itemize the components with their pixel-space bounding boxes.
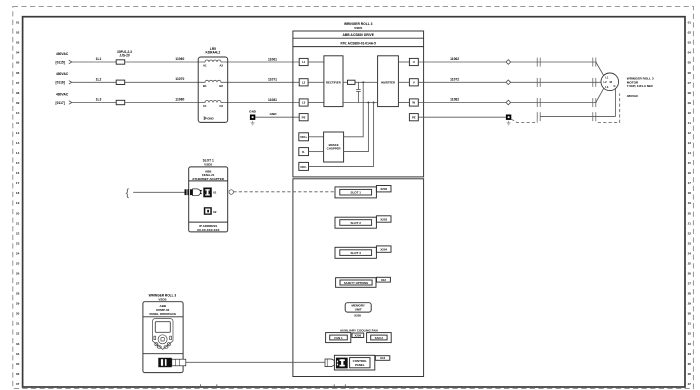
svg-text:UDC+: UDC+: [300, 135, 308, 139]
motor M WRINGER ROLL 3: [601, 73, 619, 91]
svg-text:GND: GND: [207, 116, 213, 120]
svg-text:22: 22: [688, 231, 692, 235]
svg-text:C1: C1: [203, 104, 207, 108]
memory unit: [345, 303, 371, 312]
svg-text:480VAC: 480VAC: [56, 52, 69, 56]
inverter block: [378, 56, 399, 107]
control panel connector box: [334, 355, 374, 370]
wire motor lead U diagonal: [596, 62, 604, 75]
connector plug at panel interface: [158, 358, 186, 367]
motor ground tie point (black square): [506, 115, 511, 126]
svg-text:09: 09: [16, 101, 20, 105]
svg-text:36: 36: [688, 372, 692, 376]
svg-text:11080: 11080: [175, 97, 184, 101]
terminal R-: [299, 148, 309, 156]
svg-text:B2: B2: [219, 84, 223, 88]
svg-text:11061: 11061: [268, 57, 277, 61]
port X203: [376, 216, 391, 222]
adapter IP address field: [189, 222, 228, 232]
wire R- to chopper: [309, 151, 324, 153]
shield bond dashed from square to cable: [511, 119, 537, 122]
node DC- junction 1: [367, 102, 369, 104]
svg-text:16: 16: [16, 171, 20, 175]
svg-text:G: G: [613, 84, 615, 88]
svg-text:UDC-: UDC-: [300, 165, 307, 169]
wire UDC- to DC-: [309, 103, 374, 167]
motor nameplate text: [627, 76, 654, 98]
svg-text:24: 24: [16, 251, 20, 255]
svg-text:ABB ACS880 DRIVE: ABB ACS880 DRIVE: [343, 33, 375, 37]
port X1: [203, 188, 217, 198]
svg-text:11081: 11081: [268, 98, 277, 102]
svg-text:08: 08: [16, 91, 20, 95]
svg-text:01: 01: [16, 21, 20, 25]
svg-text:X203: X203: [380, 217, 387, 221]
svg-text:VSD5: VSD5: [158, 298, 166, 302]
svg-text:02: 02: [16, 31, 20, 35]
svg-text:25: 25: [688, 262, 692, 266]
svg-text:16: 16: [688, 171, 692, 175]
svg-text:33: 33: [688, 342, 692, 346]
svg-text:PE: PE: [412, 115, 416, 119]
wire dashed adapter to drive SLOT 1: [233, 191, 335, 193]
svg-text:UNIT: UNIT: [355, 308, 362, 312]
svg-text:XX.XX.XXX.XXX: XX.XX.XXX.XXX: [197, 228, 220, 232]
svg-text:FAN 2: FAN 2: [375, 336, 384, 340]
svg-text:12: 12: [688, 131, 692, 135]
wire motor lead V: [596, 81, 601, 83]
wire 11070 fuse to line reactor: [125, 77, 199, 82]
fuse 30FU 1L1: [116, 60, 125, 64]
svg-text:VSD5: VSD5: [354, 26, 362, 30]
fan FAN 1: [326, 333, 351, 343]
svg-text:34: 34: [688, 352, 692, 356]
svg-text:C2: C2: [219, 104, 223, 108]
svg-text:FAN 1: FAN 1: [334, 336, 343, 340]
wire chopper to DC-: [344, 103, 369, 152]
wire 1L3 from source to fuse: [72, 98, 116, 103]
svg-text:20: 20: [688, 211, 692, 215]
wire 11071 reactor to drive terminal L2: [228, 78, 300, 83]
svg-text:X208: X208: [355, 334, 362, 338]
wire panel interface to drive X13: [186, 361, 325, 363]
svg-text:05: 05: [688, 61, 692, 65]
svg-text:VSD5: VSD5: [204, 163, 212, 167]
svg-text:11070: 11070: [175, 77, 184, 81]
svg-text:W: W: [412, 101, 415, 105]
wire GND to drive PE terminal: [253, 112, 300, 117]
svg-text:1L3: 1L3: [96, 98, 102, 102]
fuse 30FU 1L2: [116, 80, 125, 84]
drive output terminal W: [409, 99, 418, 106]
svg-text:X202: X202: [380, 187, 387, 191]
svg-text:32: 32: [688, 332, 692, 336]
cable marker ticks pair 1: [537, 58, 540, 122]
svg-text:21: 21: [688, 221, 692, 225]
svg-text:1L2: 1L2: [96, 77, 102, 81]
svg-text:27: 27: [688, 282, 692, 286]
wire motor lead W diagonal: [596, 89, 604, 103]
drive header ABB ACS880 DRIVE: [293, 33, 424, 38]
panel interface divider: [143, 353, 183, 355]
wire terminal L3 to rectifier: [308, 102, 324, 104]
svg-text:AUXILIARY COOLING FAN: AUXILIARY COOLING FAN: [340, 329, 378, 333]
svg-text:35: 35: [16, 362, 20, 366]
wire 11060 fuse to line reactor: [125, 57, 199, 62]
rectifier block: [324, 56, 343, 107]
svg-text:30: 30: [16, 312, 20, 316]
svg-text:03: 03: [688, 41, 692, 45]
svg-text:7.5HP, 11FLA NEC: 7.5HP, 11FLA NEC: [627, 84, 654, 88]
svg-text:1L1: 1L1: [96, 57, 102, 61]
option SLOT 1: [335, 187, 376, 198]
svg-text:V: V: [413, 81, 415, 85]
svg-text:04: 04: [688, 51, 692, 55]
wire chopper to DC+: [344, 82, 364, 137]
wire 11061 reactor to drive terminal L1: [228, 57, 300, 62]
svg-text:L1: L1: [302, 60, 306, 64]
svg-text:PE: PE: [302, 115, 306, 119]
cable marker ticks pair 2: [593, 58, 596, 122]
svg-text:09: 09: [688, 101, 692, 105]
svg-text:37: 37: [16, 382, 20, 386]
reactor winding B1-B2: [198, 80, 228, 88]
svg-text:28: 28: [688, 292, 692, 296]
node circle out of adapter: [229, 190, 233, 194]
svg-text:07: 07: [688, 81, 692, 85]
svg-text:U: U: [413, 60, 415, 64]
port X2: [204, 207, 217, 215]
wire 11080 fuse to line reactor: [125, 97, 199, 102]
wire 11082 to motor: [418, 98, 596, 103]
svg-text:A1: A1: [203, 64, 207, 68]
drive output terminal PE: [409, 114, 418, 121]
node DC- junction 2: [373, 102, 375, 104]
svg-text:X12: X12: [381, 278, 387, 282]
svg-text:JJS-20: JJS-20: [119, 54, 130, 58]
svg-text:A2: A2: [219, 64, 223, 68]
svg-text:33: 33: [16, 342, 20, 346]
svg-text:GND: GND: [270, 112, 278, 116]
svg-text:11082: 11082: [450, 98, 459, 102]
svg-text:{: {: [126, 187, 130, 199]
wire inverter to terminal V: [398, 81, 409, 83]
node [0116] 480VAC source arrow: [56, 72, 72, 85]
wire terminal L2 to rectifier: [308, 81, 324, 83]
svg-text:06: 06: [688, 71, 692, 75]
svg-text:05: 05: [16, 61, 20, 65]
svg-text:10: 10: [16, 111, 20, 115]
svg-text:10: 10: [688, 111, 692, 115]
fuse 30FU 1L3: [116, 100, 125, 104]
option SAFETY OPTIONS: [336, 278, 376, 288]
svg-text:21: 21: [16, 221, 20, 225]
wire 1L2 from source to fuse: [72, 77, 116, 82]
shield dashed at motor end: [598, 94, 620, 123]
ethernet adapter FENA-21 titles: [203, 159, 214, 167]
svg-text:06: 06: [16, 71, 20, 75]
drive input terminal L2: [299, 79, 308, 86]
svg-text:31: 31: [688, 322, 692, 326]
svg-text:15: 15: [16, 161, 20, 165]
drive header P/N: [293, 41, 424, 46]
svg-text:27: 27: [16, 282, 20, 286]
svg-text:01: 01: [688, 21, 692, 25]
svg-text:26: 26: [16, 272, 20, 276]
wire UDC+ to chopper: [309, 136, 324, 138]
ethernet adapter header: [189, 169, 228, 181]
svg-text:11060: 11060: [175, 57, 184, 61]
wire terminal L1 to rectifier: [308, 61, 324, 63]
svg-text:L3: L3: [302, 101, 306, 105]
svg-text:03: 03: [16, 41, 20, 45]
DC bus capacitor: [356, 82, 361, 102]
fuse designator 30FU1,2,3 JJS-20: [117, 50, 132, 58]
svg-text:SLOT 2: SLOT 2: [350, 221, 361, 225]
svg-text:RECTIFIER: RECTIFIER: [326, 80, 341, 84]
brake chopper block: [324, 132, 344, 162]
svg-text:22: 22: [16, 231, 20, 235]
drive output terminal U: [409, 58, 418, 65]
svg-text:X205: X205: [354, 314, 361, 318]
terminal UDC+: [299, 133, 309, 141]
svg-text:480VAC: 480VAC: [56, 72, 69, 76]
svg-text:28: 28: [16, 292, 20, 296]
fan FAN 2: [367, 333, 392, 343]
drive input terminal L1: [299, 58, 308, 65]
svg-text:[0115]: [0115]: [56, 60, 65, 64]
left margin row numbers 01-37: [16, 21, 20, 386]
svg-text:GND: GND: [249, 110, 257, 114]
svg-text:35: 35: [688, 362, 692, 366]
port X13: [375, 356, 389, 361]
svg-text:14: 14: [16, 151, 20, 155]
option SLOT 3: [335, 247, 376, 258]
svg-text:26: 26: [688, 272, 692, 276]
wire PE conductor in cable: [540, 116, 615, 118]
reactor winding A1-A2: [198, 60, 228, 68]
wire DC- rail: [343, 102, 378, 104]
svg-text:PANEL: PANEL: [355, 363, 365, 367]
drive PE terminal: [299, 114, 308, 121]
svg-text:B1: B1: [203, 84, 207, 88]
wire motor ground lead: [614, 89, 616, 117]
svg-text:11062: 11062: [450, 57, 459, 61]
svg-text:15: 15: [688, 161, 692, 165]
svg-text:X1: X1: [213, 190, 217, 194]
svg-text:30: 30: [688, 312, 692, 316]
svg-text:32: 32: [16, 332, 20, 336]
wire 11072 to motor: [418, 77, 596, 82]
svg-text:19: 19: [688, 201, 692, 205]
control panel device icon: [152, 319, 173, 350]
reactor GND marker: [204, 116, 213, 120]
svg-text:37: 37: [688, 382, 692, 386]
svg-text:36: 36: [16, 372, 20, 376]
splice point on V wire: [506, 80, 511, 85]
svg-text:25: 25: [16, 262, 20, 266]
svg-text:29: 29: [16, 302, 20, 306]
right margin row numbers 01-37: [688, 21, 692, 386]
splice point on U wire: [506, 60, 511, 65]
option SLOT 2: [335, 217, 376, 228]
svg-text:X2: X2: [213, 210, 217, 214]
ethernet adapter outline: [189, 167, 228, 232]
panel interface header: [143, 304, 183, 317]
svg-text:31: 31: [16, 322, 20, 326]
svg-text:12: 12: [16, 131, 20, 135]
svg-text:SLOT 1: SLOT 1: [350, 191, 361, 195]
svg-text:PANEL INTERFACE: PANEL INTERFACE: [149, 312, 176, 316]
drive control section outline: [293, 179, 424, 377]
wire inverter to terminal W: [398, 102, 409, 104]
svg-text:[0116]: [0116]: [56, 81, 65, 85]
wire ethernet cable to X1: [133, 191, 185, 193]
svg-text:X204: X204: [380, 248, 387, 252]
svg-text:11071: 11071: [268, 78, 277, 82]
node [0117] 480VAC source arrow: [56, 92, 72, 105]
wire PE to motor ground point: [418, 116, 506, 118]
svg-text:18: 18: [16, 191, 20, 195]
svg-text:INVERTER: INVERTER: [381, 80, 395, 84]
node [0115] 480VAC source arrow: [56, 52, 72, 65]
drive input terminal L3: [299, 99, 308, 106]
svg-text:23: 23: [16, 241, 20, 245]
svg-text:11: 11: [688, 121, 692, 125]
svg-text:20: 20: [16, 211, 20, 215]
DC choke: [348, 80, 356, 84]
wire 11062 to motor: [418, 57, 596, 62]
ground tie point (black square) at drive input: [249, 110, 257, 125]
svg-text:08: 08: [688, 91, 692, 95]
svg-text:X13: X13: [380, 356, 386, 360]
svg-text:17: 17: [16, 181, 20, 185]
svg-text:SAFETY OPTIONS: SAFETY OPTIONS: [344, 281, 368, 285]
panel interface titles: [149, 294, 177, 302]
wire 1L1 from source to fuse: [72, 57, 116, 62]
wire inverter to terminal U: [398, 61, 409, 63]
svg-text:14: 14: [688, 151, 692, 155]
wire DC+ rail: [343, 81, 348, 83]
title block ticks at bottom border: [201, 384, 346, 387]
svg-text:480VAC: 480VAC: [627, 94, 639, 98]
svg-text:19: 19: [16, 201, 20, 205]
svg-text:07: 07: [16, 81, 20, 85]
port X204: [376, 246, 391, 252]
svg-text:L2: L2: [302, 81, 306, 85]
line reactor LR5 KDRA4L2: [198, 47, 228, 123]
wire 11081 reactor to drive terminal L3: [228, 98, 300, 103]
splice point on W wire: [506, 100, 511, 105]
svg-text:R-: R-: [302, 150, 305, 154]
svg-text:11072: 11072: [450, 77, 459, 81]
svg-text:18: 18: [688, 191, 692, 195]
svg-text:P/N: ACS880-01-014A-5: P/N: ACS880-01-014A-5: [341, 41, 377, 45]
svg-text:17: 17: [688, 181, 692, 185]
panel interface outline: [143, 302, 183, 373]
svg-text:CHOPPER: CHOPPER: [327, 147, 341, 151]
node DC+ junction: [362, 81, 364, 83]
reactor winding C1-C2: [198, 101, 228, 109]
svg-text:ETHERNET ADAPTER: ETHERNET ADAPTER: [193, 177, 225, 181]
svg-text:11: 11: [16, 121, 20, 125]
op drive outline ABB ACS880: [293, 22, 424, 177]
svg-text:34: 34: [16, 352, 20, 356]
connector plug into X1: [185, 189, 202, 196]
port X202: [376, 186, 391, 192]
svg-text:[0117]: [0117]: [56, 101, 65, 105]
svg-text:04: 04: [16, 51, 20, 55]
port X12: [377, 277, 391, 282]
svg-text:480VAC: 480VAC: [56, 92, 69, 96]
svg-text:13: 13: [688, 141, 692, 145]
svg-text:13: 13: [16, 141, 20, 145]
connector plug into control panel: [325, 359, 334, 367]
svg-text:23: 23: [688, 241, 692, 245]
svg-text:24: 24: [688, 251, 692, 255]
svg-text:KDRA4L2: KDRA4L2: [206, 51, 221, 55]
svg-text:SLOT 3: SLOT 3: [350, 251, 361, 255]
port X208: [352, 333, 364, 338]
svg-text:02: 02: [688, 31, 692, 35]
drive output terminal V: [409, 79, 418, 86]
terminal UDC-: [299, 162, 309, 170]
svg-text:29: 29: [688, 302, 692, 306]
